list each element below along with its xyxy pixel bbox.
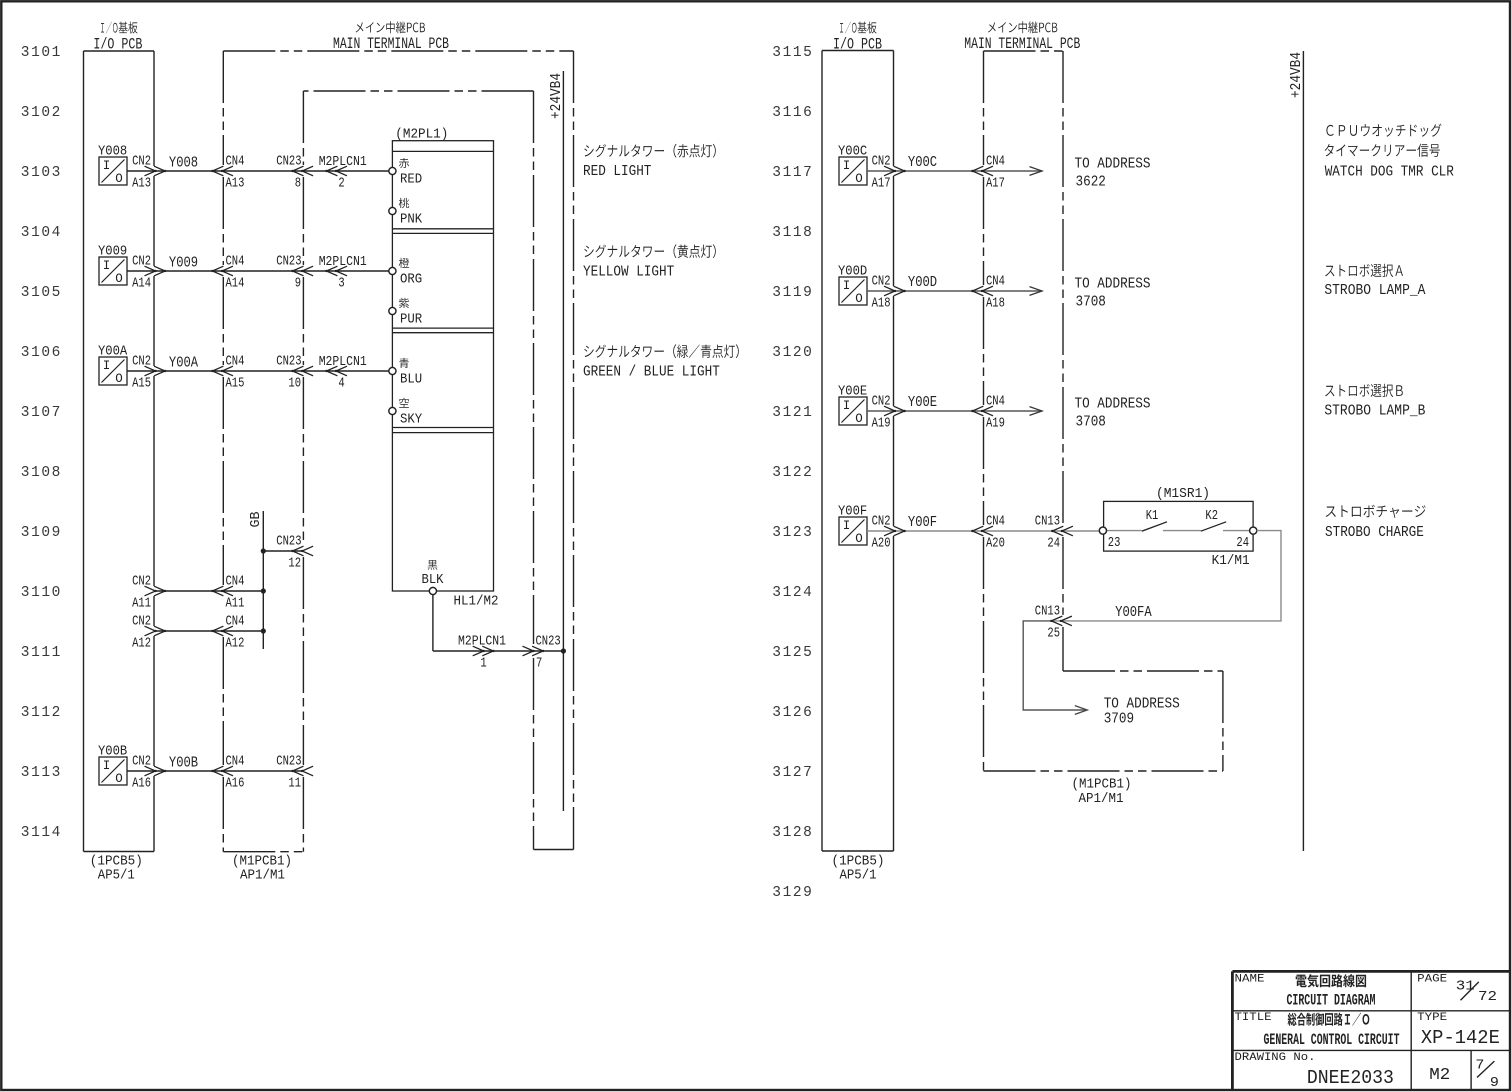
svg-text:HL1/M2: HL1/M2 bbox=[454, 594, 499, 610]
svg-text:M2: M2 bbox=[1429, 1066, 1450, 1085]
svg-text:3117: 3117 bbox=[772, 165, 813, 181]
svg-text:23: 23 bbox=[1108, 535, 1121, 551]
svg-text:TO ADDRESS: TO ADDRESS bbox=[1104, 696, 1180, 712]
svg-text:3708: 3708 bbox=[1076, 294, 1106, 310]
svg-text:9: 9 bbox=[1490, 1075, 1499, 1091]
svg-text:Y00C: Y00C bbox=[838, 144, 867, 160]
svg-text:PUR: PUR bbox=[400, 311, 423, 327]
svg-text:3101: 3101 bbox=[21, 45, 62, 61]
svg-text:3116: 3116 bbox=[772, 105, 813, 121]
svg-text:A11: A11 bbox=[132, 596, 151, 612]
svg-text:A18: A18 bbox=[872, 296, 891, 312]
svg-text:CN4: CN4 bbox=[226, 254, 245, 270]
svg-text:GREEN / BLUE LIGHT: GREEN / BLUE LIGHT bbox=[583, 364, 720, 380]
svg-text:+24VB4: +24VB4 bbox=[549, 73, 565, 119]
svg-text:3103: 3103 bbox=[21, 165, 62, 181]
svg-text:CN2: CN2 bbox=[132, 154, 151, 170]
svg-text:SKY: SKY bbox=[400, 411, 423, 427]
svg-text:A16: A16 bbox=[226, 776, 245, 792]
svg-text:K1: K1 bbox=[1146, 508, 1159, 524]
svg-text:STROBO CHARGE: STROBO CHARGE bbox=[1325, 525, 1424, 541]
svg-text:I: I bbox=[843, 159, 851, 173]
svg-text:XP-142E: XP-142E bbox=[1421, 1027, 1500, 1049]
svg-text:Y00F: Y00F bbox=[908, 515, 937, 531]
svg-text:3108: 3108 bbox=[21, 465, 62, 481]
svg-text:3104: 3104 bbox=[21, 225, 62, 241]
svg-text:+24VB4: +24VB4 bbox=[1289, 52, 1305, 98]
svg-text:YELLOW LIGHT: YELLOW LIGHT bbox=[583, 264, 674, 280]
svg-text:TITLE: TITLE bbox=[1235, 1012, 1272, 1024]
svg-text:I: I bbox=[843, 279, 851, 293]
svg-text:3121: 3121 bbox=[772, 405, 813, 421]
svg-text:A20: A20 bbox=[872, 536, 891, 552]
svg-text:3106: 3106 bbox=[21, 345, 62, 361]
svg-text:Y00B: Y00B bbox=[98, 744, 127, 760]
svg-text:10: 10 bbox=[288, 376, 301, 392]
svg-text:Y00C: Y00C bbox=[908, 155, 937, 171]
svg-text:3115: 3115 bbox=[772, 45, 813, 61]
svg-text:Y00A: Y00A bbox=[169, 355, 198, 371]
svg-text:3110: 3110 bbox=[21, 585, 62, 601]
svg-text:STROBO LAMP_A: STROBO LAMP_A bbox=[1324, 283, 1425, 299]
svg-text:2: 2 bbox=[338, 176, 344, 192]
svg-text:DRAWING No.: DRAWING No. bbox=[1235, 1052, 1316, 1064]
svg-text:A17: A17 bbox=[872, 176, 891, 192]
svg-text:K2: K2 bbox=[1205, 508, 1218, 524]
svg-text:M2PLCN1: M2PLCN1 bbox=[458, 634, 506, 650]
svg-text:CN23: CN23 bbox=[276, 754, 301, 770]
svg-text:PAGE: PAGE bbox=[1417, 974, 1447, 986]
svg-text:CIRCUIT DIAGRAM: CIRCUIT DIAGRAM bbox=[1287, 992, 1376, 1010]
svg-text:3120: 3120 bbox=[772, 345, 813, 361]
svg-text:RED LIGHT: RED LIGHT bbox=[583, 164, 652, 180]
svg-text:I: I bbox=[103, 159, 111, 173]
svg-text:A14: A14 bbox=[132, 276, 151, 292]
svg-text:3128: 3128 bbox=[772, 825, 813, 841]
svg-text:24: 24 bbox=[1236, 535, 1249, 551]
svg-text:Y00E: Y00E bbox=[908, 395, 937, 411]
svg-text:3119: 3119 bbox=[772, 285, 813, 301]
svg-text:Y00B: Y00B bbox=[169, 755, 198, 771]
svg-text:CN13: CN13 bbox=[1035, 604, 1060, 620]
svg-text:RED: RED bbox=[400, 171, 422, 187]
svg-text:AP5/1: AP5/1 bbox=[840, 868, 877, 884]
svg-text:O: O bbox=[855, 412, 863, 426]
svg-text:CN2: CN2 bbox=[132, 254, 151, 270]
svg-text:A19: A19 bbox=[872, 416, 891, 432]
svg-text:3111: 3111 bbox=[21, 645, 62, 661]
svg-text:O: O bbox=[115, 772, 123, 786]
svg-text:BLK: BLK bbox=[422, 572, 445, 588]
svg-text:A13: A13 bbox=[226, 176, 245, 192]
svg-text:M2PLCN1: M2PLCN1 bbox=[319, 254, 367, 270]
svg-text:CN13: CN13 bbox=[1035, 514, 1060, 530]
svg-text:A15: A15 bbox=[132, 376, 151, 392]
svg-text:AP1/M1: AP1/M1 bbox=[1079, 791, 1124, 807]
svg-text:A12: A12 bbox=[132, 636, 151, 652]
svg-text:CN4: CN4 bbox=[226, 614, 245, 630]
svg-text:CN2: CN2 bbox=[872, 154, 891, 170]
svg-text:3708: 3708 bbox=[1076, 414, 1106, 430]
svg-text:Y00D: Y00D bbox=[908, 275, 937, 291]
svg-text:O: O bbox=[855, 292, 863, 306]
svg-text:3126: 3126 bbox=[772, 705, 813, 721]
svg-text:CN23: CN23 bbox=[276, 254, 301, 270]
svg-text:3118: 3118 bbox=[772, 225, 813, 241]
svg-text:(M2PL1): (M2PL1) bbox=[395, 127, 448, 143]
svg-text:A13: A13 bbox=[132, 176, 151, 192]
svg-text:A19: A19 bbox=[986, 416, 1005, 432]
svg-text:3112: 3112 bbox=[21, 705, 62, 721]
svg-text:3: 3 bbox=[338, 276, 344, 292]
svg-text:M2PLCN1: M2PLCN1 bbox=[319, 154, 367, 170]
svg-text:3124: 3124 bbox=[772, 585, 813, 601]
svg-text:4: 4 bbox=[338, 376, 344, 392]
svg-text:CN2: CN2 bbox=[132, 354, 151, 370]
svg-text:A20: A20 bbox=[986, 536, 1005, 552]
svg-text:I/O PCB: I/O PCB bbox=[833, 35, 882, 53]
svg-text:A14: A14 bbox=[226, 276, 245, 292]
svg-text:Y008: Y008 bbox=[98, 144, 127, 160]
svg-text:ORG: ORG bbox=[400, 271, 422, 287]
svg-text:Y00E: Y00E bbox=[838, 384, 867, 400]
svg-text:WATCH DOG TMR CLR: WATCH DOG TMR CLR bbox=[1325, 164, 1454, 180]
svg-text:3114: 3114 bbox=[21, 825, 62, 841]
svg-text:CN23: CN23 bbox=[276, 534, 301, 550]
svg-text:3123: 3123 bbox=[772, 525, 813, 541]
svg-text:BLU: BLU bbox=[400, 371, 422, 387]
svg-text:CN23: CN23 bbox=[536, 634, 561, 650]
svg-text:NAME: NAME bbox=[1235, 974, 1265, 986]
svg-text:3622: 3622 bbox=[1076, 174, 1106, 190]
svg-text:AP1/M1: AP1/M1 bbox=[240, 868, 285, 884]
svg-text:M2PLCN1: M2PLCN1 bbox=[319, 354, 367, 370]
svg-text:A12: A12 bbox=[226, 636, 245, 652]
svg-text:I: I bbox=[103, 359, 111, 373]
svg-text:3109: 3109 bbox=[21, 525, 62, 541]
svg-text:31: 31 bbox=[1456, 978, 1475, 994]
svg-text:A18: A18 bbox=[986, 296, 1005, 312]
svg-text:9: 9 bbox=[295, 276, 301, 292]
svg-text:CN23: CN23 bbox=[276, 154, 301, 170]
svg-text:I: I bbox=[843, 519, 851, 533]
svg-text:Y00A: Y00A bbox=[98, 344, 128, 360]
svg-text:Y00F: Y00F bbox=[838, 504, 867, 520]
svg-text:A16: A16 bbox=[132, 776, 151, 792]
svg-text:Y00D: Y00D bbox=[838, 264, 867, 280]
svg-text:I: I bbox=[103, 259, 111, 273]
svg-text:A17: A17 bbox=[986, 176, 1005, 192]
svg-text:A15: A15 bbox=[226, 376, 245, 392]
svg-text:AP5/1: AP5/1 bbox=[98, 868, 135, 884]
svg-text:3107: 3107 bbox=[21, 405, 62, 421]
svg-text:O: O bbox=[115, 272, 123, 286]
svg-text:Y008: Y008 bbox=[169, 155, 198, 171]
svg-text:CN4: CN4 bbox=[986, 394, 1005, 410]
svg-text:K1/M1: K1/M1 bbox=[1212, 553, 1250, 569]
svg-text:Y009: Y009 bbox=[98, 244, 127, 260]
svg-text:CN23: CN23 bbox=[276, 354, 301, 370]
svg-text:DNEE2033: DNEE2033 bbox=[1307, 1067, 1394, 1089]
svg-text:Y00FA: Y00FA bbox=[1115, 605, 1152, 621]
svg-text:25: 25 bbox=[1047, 625, 1060, 641]
svg-text:8: 8 bbox=[295, 176, 301, 192]
svg-text:3102: 3102 bbox=[21, 105, 62, 121]
svg-text:GENERAL CONTROL CIRCUIT: GENERAL CONTROL CIRCUIT bbox=[1264, 1031, 1400, 1049]
svg-text:TYPE: TYPE bbox=[1417, 1012, 1447, 1024]
svg-text:O: O bbox=[115, 372, 123, 386]
svg-text:3709: 3709 bbox=[1104, 711, 1134, 727]
svg-text:CN4: CN4 bbox=[986, 154, 1005, 170]
svg-text:MAIN TERMINAL PCB: MAIN TERMINAL PCB bbox=[333, 35, 449, 53]
svg-text:PNK: PNK bbox=[400, 211, 423, 227]
svg-text:(M1SR1): (M1SR1) bbox=[1156, 486, 1210, 502]
svg-text:MAIN TERMINAL PCB: MAIN TERMINAL PCB bbox=[964, 35, 1080, 53]
svg-text:72: 72 bbox=[1478, 989, 1497, 1005]
svg-text:CN4: CN4 bbox=[226, 574, 245, 590]
svg-text:I: I bbox=[103, 759, 111, 773]
svg-text:O: O bbox=[855, 532, 863, 546]
svg-text:CN2: CN2 bbox=[132, 754, 151, 770]
svg-text:CN2: CN2 bbox=[872, 514, 891, 530]
svg-text:3129: 3129 bbox=[772, 885, 813, 901]
svg-text:A11: A11 bbox=[226, 596, 245, 612]
svg-text:3127: 3127 bbox=[772, 765, 813, 781]
svg-text:3113: 3113 bbox=[21, 765, 62, 781]
svg-text:TO ADDRESS: TO ADDRESS bbox=[1075, 156, 1151, 172]
svg-text:O: O bbox=[115, 172, 123, 186]
svg-text:3125: 3125 bbox=[772, 645, 813, 661]
svg-text:3122: 3122 bbox=[772, 465, 813, 481]
svg-text:3105: 3105 bbox=[21, 285, 62, 301]
svg-text:CN2: CN2 bbox=[132, 574, 151, 590]
svg-text:Y009: Y009 bbox=[169, 255, 198, 271]
svg-text:CN2: CN2 bbox=[872, 394, 891, 410]
svg-text:CN4: CN4 bbox=[986, 274, 1005, 290]
svg-text:I/O PCB: I/O PCB bbox=[93, 35, 142, 53]
svg-text:O: O bbox=[855, 172, 863, 186]
svg-text:CN4: CN4 bbox=[226, 154, 245, 170]
svg-text:24: 24 bbox=[1047, 536, 1060, 552]
svg-text:1: 1 bbox=[480, 656, 486, 672]
svg-text:TO ADDRESS: TO ADDRESS bbox=[1075, 276, 1151, 292]
svg-text:11: 11 bbox=[288, 776, 301, 792]
svg-text:CN4: CN4 bbox=[226, 354, 245, 370]
svg-text:7: 7 bbox=[536, 656, 542, 672]
svg-text:CN4: CN4 bbox=[226, 754, 245, 770]
svg-text:I: I bbox=[843, 399, 851, 413]
svg-text:CN2: CN2 bbox=[872, 274, 891, 290]
svg-text:CN4: CN4 bbox=[986, 514, 1005, 530]
svg-text:CN2: CN2 bbox=[132, 614, 151, 630]
svg-text:TO ADDRESS: TO ADDRESS bbox=[1075, 396, 1151, 412]
svg-text:GB: GB bbox=[248, 512, 264, 528]
svg-text:STROBO LAMP_B: STROBO LAMP_B bbox=[1324, 403, 1425, 419]
svg-text:12: 12 bbox=[288, 556, 301, 572]
